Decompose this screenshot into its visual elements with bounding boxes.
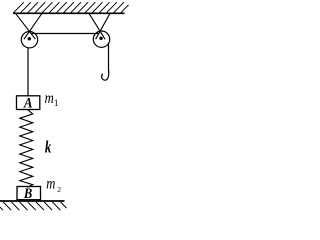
- left vertical rope: [27, 47, 29, 95]
- right pulley: [93, 31, 109, 47]
- block B: [17, 187, 41, 200]
- svg-text:A: A: [23, 95, 33, 111]
- svg-text:k: k: [45, 139, 52, 157]
- svg-text:m: m: [45, 90, 54, 108]
- spring k: [20, 110, 33, 188]
- svg-text:B: B: [23, 185, 32, 201]
- left pulley: [21, 32, 37, 48]
- left pulley bracket: [16, 13, 43, 39]
- ceiling hatching: [14, 2, 129, 13]
- left pulley axle: [28, 37, 31, 40]
- right vertical rope: [108, 43, 110, 70]
- svg-text:2: 2: [57, 185, 61, 194]
- right pulley bracket: [89, 13, 110, 39]
- right pulley axle: [99, 37, 102, 40]
- ground hatching: [0, 202, 67, 210]
- horizontal rope between pulleys: [31, 33, 99, 35]
- ceiling line: [13, 12, 125, 14]
- svg-text:m: m: [46, 175, 55, 193]
- ground line: [0, 200, 65, 202]
- hook: [102, 70, 109, 81]
- block A: [17, 96, 40, 110]
- svg-text:1: 1: [54, 98, 59, 108]
